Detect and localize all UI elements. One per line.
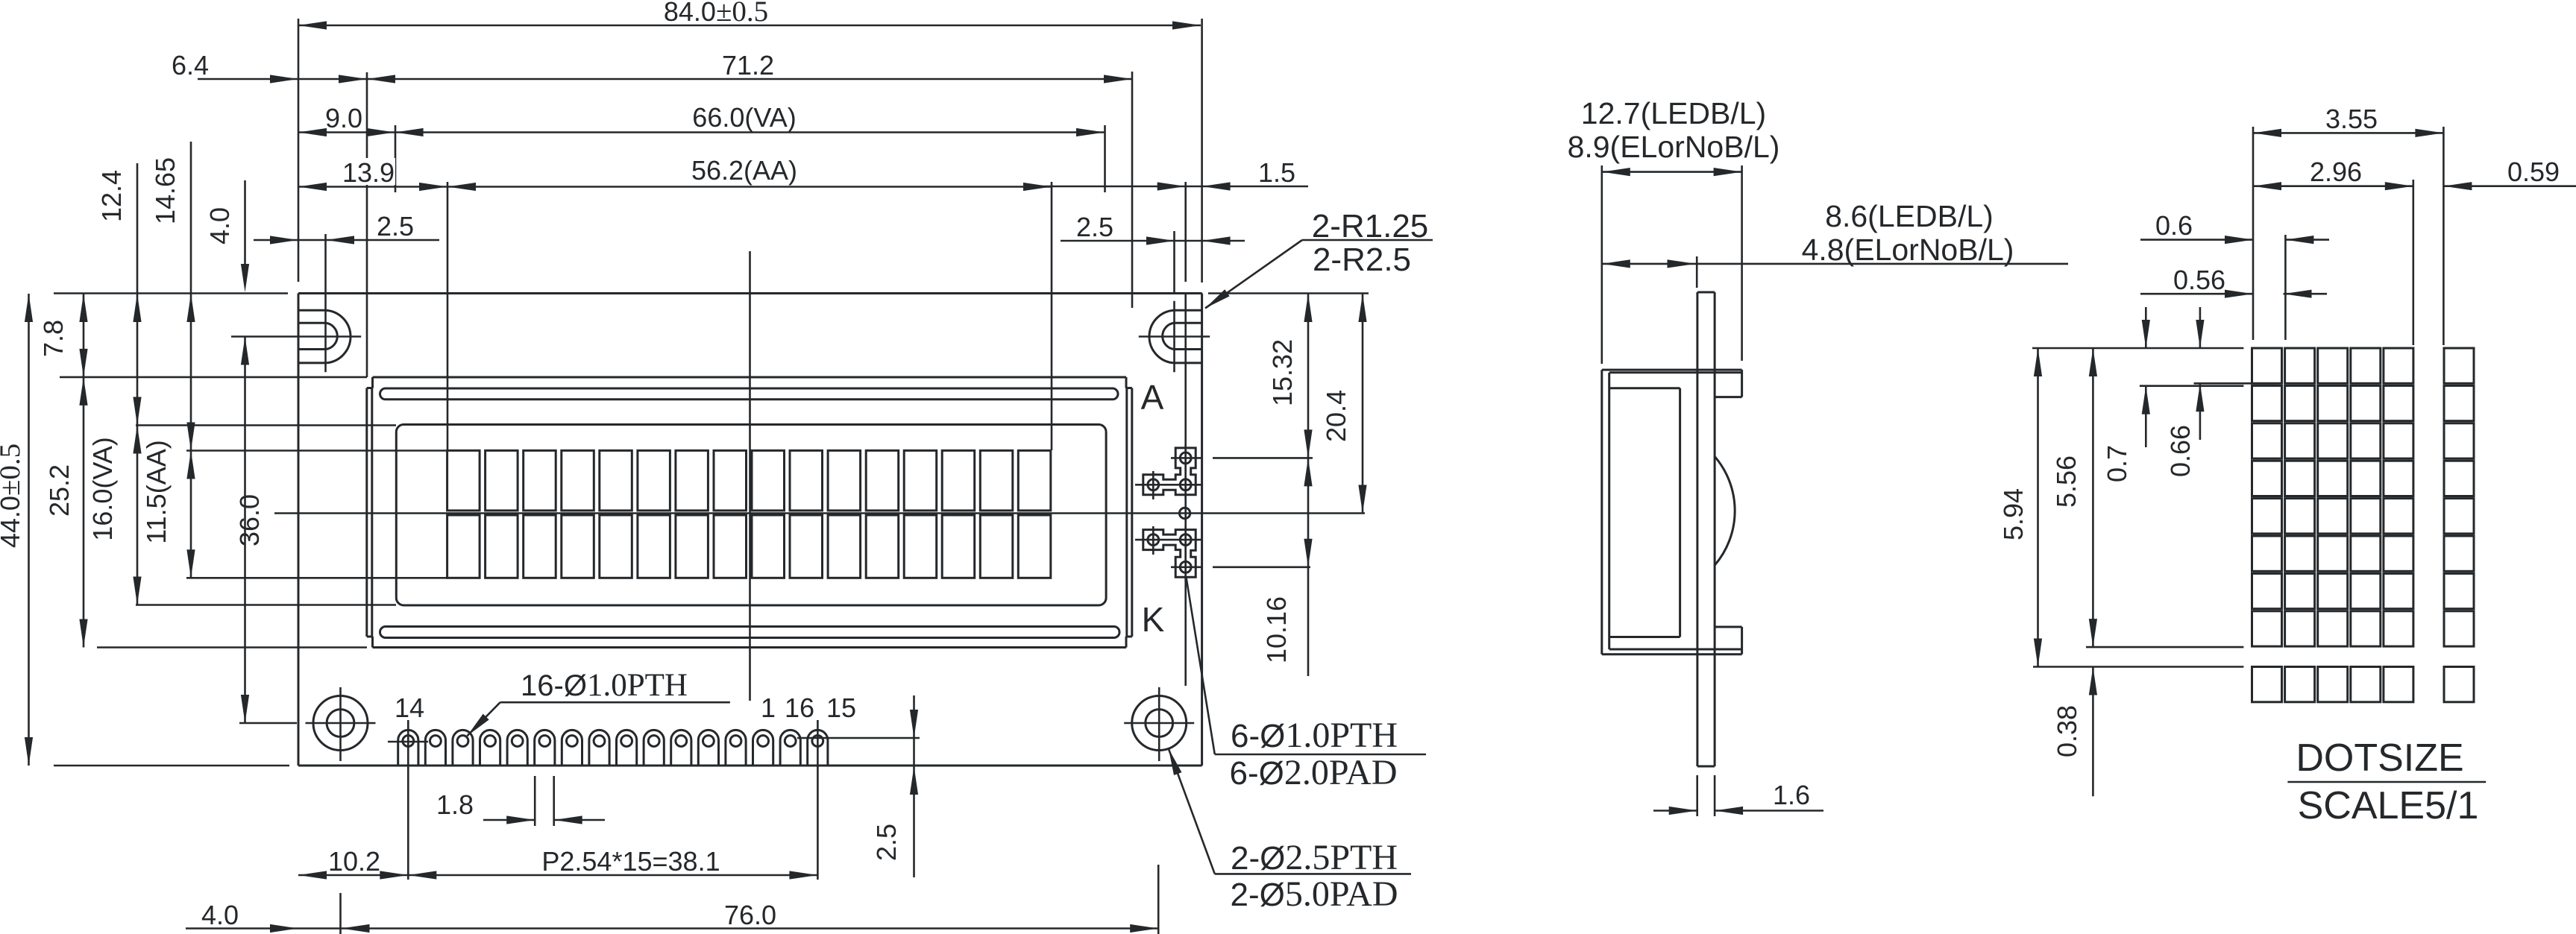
svg-text:1: 1 (761, 692, 776, 723)
extension line AA left 600 (447, 182, 449, 450)
character cell matrix 16x2 (447, 450, 480, 511)
svg-text:6-Ø2.0PAD: 6-Ø2.0PAD (1230, 753, 1398, 792)
svg-text:DOTSIZE: DOTSIZE (2296, 736, 2463, 780)
svg-text:K: K (1142, 600, 1165, 639)
svg-text:56.2(AA): 56.2(AA) (691, 155, 797, 186)
right mounting hole 2.5PTH/5.0PAD (1132, 696, 1187, 751)
svg-text:20.4: 20.4 (1321, 390, 1351, 442)
side view bezel top flange (1602, 369, 1742, 371)
svg-text:8.9(ELorNoB/L): 8.9(ELorNoB/L) (1568, 130, 1780, 164)
svg-text:71.2: 71.2 (722, 50, 774, 81)
svg-text:2-Ø5.0PAD: 2-Ø5.0PAD (1231, 874, 1398, 914)
leader 2-Ø2.5PTH/2-Ø5.0PAD (1169, 748, 1215, 874)
center reference hole (1179, 508, 1190, 518)
pad column centerline (1184, 182, 1187, 282)
extension top edge right (1208, 292, 1369, 294)
extension line AA right 1410 (1051, 182, 1053, 450)
svg-text:14: 14 (395, 692, 424, 723)
svg-text:2-R1.25: 2-R1.25 (1312, 208, 1429, 244)
svg-text:44.0±0.5: 44.0±0.5 (0, 444, 26, 548)
svg-text:9.0: 9.0 (325, 103, 362, 133)
svg-text:7.8: 7.8 (38, 320, 69, 357)
dim 0.38 cursor gap (2092, 667, 2094, 797)
extension bottom edge left (54, 765, 289, 767)
LED anode pad cluster A (1143, 448, 1196, 495)
svg-text:25.2: 25.2 (44, 464, 75, 517)
svg-text:2.5: 2.5 (1076, 212, 1113, 242)
side view PCB strip (1696, 292, 1698, 766)
dim 5.94 (2037, 348, 2039, 667)
svg-text:12.7(LEDB/L): 12.7(LEDB/L) (1581, 96, 1766, 130)
svg-text:4.0: 4.0 (201, 900, 239, 930)
svg-text:10.16: 10.16 (1261, 596, 1292, 663)
dot row9 top ref line (2033, 666, 2243, 668)
extension pad1 ref (1213, 457, 1313, 459)
extension line PCB left edge (298, 19, 300, 282)
bezel left folded edge (365, 388, 368, 637)
svg-text:5.56: 5.56 (2051, 455, 2082, 508)
svg-text:SCALE5/1: SCALE5/1 (2298, 784, 2479, 827)
bezel right folded edge (1131, 388, 1133, 637)
dim 2.5 right (1061, 240, 1245, 242)
svg-text:1.5: 1.5 (1258, 157, 1295, 188)
svg-text:4.8(ELorNoB/L): 4.8(ELorNoB/L) (1802, 233, 2014, 267)
dim 1.6 PCB thickness (1696, 775, 1698, 816)
svg-text:76.0: 76.0 (724, 900, 776, 930)
dim 2.96 / 0.59 (2413, 180, 2415, 345)
svg-text:11.5(AA): 11.5(AA) (141, 440, 172, 543)
left mounting hole 2.5PTH/5.0PAD (313, 696, 368, 751)
vertical centerline (749, 251, 751, 701)
leader 2-R1.25 / 2-R2.5 (1302, 239, 1433, 242)
svg-text:84.0±0.5: 84.0±0.5 (664, 0, 768, 28)
svg-text:0.7: 0.7 (2102, 445, 2132, 482)
dot matrix 5x8 grid (5:1 scale) (2252, 348, 2282, 383)
LED cathode pad cluster K (1143, 530, 1196, 578)
svg-text:1.8: 1.8 (436, 789, 474, 820)
extension line VA right 1481 (1104, 125, 1106, 192)
side view bezel bottom flange (1602, 653, 1742, 655)
dim 12.4 / 16.0(VA) vertical (136, 163, 139, 605)
dim 4.0 vertical (244, 180, 246, 265)
svg-text:15: 15 (826, 692, 856, 723)
svg-text:16-Ø1.0PTH: 16-Ø1.0PTH (521, 668, 688, 703)
dim 1.8 pad width (534, 776, 536, 826)
dim 5.56 (2092, 348, 2094, 647)
horizontal centerline (274, 512, 1365, 514)
svg-text:2-Ø2.5PTH: 2-Ø2.5PTH (1231, 838, 1398, 877)
dim 2.5 pin offset (913, 695, 915, 877)
svg-text:6-Ø1.0PTH: 6-Ø1.0PTH (1231, 716, 1398, 755)
dim 8.6/4.8 (1602, 263, 2068, 265)
dim 0.6 dot pitch (2140, 239, 2253, 241)
svg-text:P2.54*15=38.1: P2.54*15=38.1 (541, 846, 720, 877)
svg-text:0.38: 0.38 (2052, 705, 2082, 757)
extension AA bottom left (186, 577, 447, 579)
side view backlight bulge (1715, 456, 1735, 565)
svg-text:3.55: 3.55 (2325, 104, 2378, 134)
svg-text:13.9: 13.9 (342, 157, 395, 188)
extension VA bottom left (136, 604, 396, 606)
dim 2.5 left (254, 239, 439, 242)
dim 20.4 (1362, 294, 1364, 514)
dim 4.0 / 76.0 bottom (186, 927, 1158, 930)
svg-text:1.6: 1.6 (1773, 780, 1810, 810)
pin 15 center mark (797, 737, 920, 739)
svg-text:5.94: 5.94 (1998, 488, 2029, 540)
dim 7.8 / 25.2 vertical (83, 294, 85, 648)
svg-text:2-R2.5: 2-R2.5 (1313, 242, 1411, 278)
svg-text:12.4: 12.4 (96, 170, 127, 222)
dim 36.0 vertical (244, 337, 246, 724)
extension line bezel left 492 (366, 72, 368, 377)
dim 3.55 char pitch (2252, 127, 2255, 340)
svg-text:2.96: 2.96 (2310, 157, 2362, 187)
svg-text:16.0(VA): 16.0(VA) (87, 437, 118, 540)
side view bezel bottom tab (1741, 627, 1743, 654)
extension bezel bottom left (97, 646, 367, 649)
dim 13.9 / 56.2(AA) (298, 186, 1052, 188)
metal bezel bottom edge (373, 646, 1127, 649)
leader 16-Ø1.0PTH (500, 701, 730, 704)
bezel top spring slot (380, 388, 1119, 400)
PCB board outline (front view) (298, 292, 1202, 294)
bezel bottom spring slot (380, 627, 1120, 638)
side view bezel top tab (1741, 370, 1743, 397)
metal bezel top edge (373, 376, 1127, 379)
title divider line (2287, 781, 2486, 783)
mount hole ext line (339, 893, 342, 934)
dot 0.66 ref line (2194, 382, 2275, 385)
extension line bezel right 1518 (1131, 72, 1134, 308)
svg-text:6.4: 6.4 (172, 50, 209, 81)
svg-text:0.66: 0.66 (2165, 425, 2196, 477)
side view bezel front face (1600, 370, 1603, 654)
extension AA top left (186, 449, 447, 452)
dim 14.65 / 11.5(AA) vertical (190, 142, 192, 578)
display window (VA opening) (396, 425, 1106, 606)
pin pads 16-x teardrop (398, 730, 418, 766)
svg-text:0.6: 0.6 (2155, 210, 2193, 241)
svg-text:66.0(VA): 66.0(VA) (692, 102, 796, 133)
svg-text:2.5: 2.5 (377, 211, 414, 242)
svg-text:16: 16 (785, 692, 814, 723)
svg-text:4.0: 4.0 (204, 207, 235, 244)
extension top edge left (54, 292, 288, 294)
dim 9.0 / 66.0(VA) (298, 131, 1105, 133)
dot 0.7 ref line (2140, 385, 2244, 387)
svg-text:8.6(LEDB/L): 8.6(LEDB/L) (1825, 199, 1994, 233)
dim 44.0±0.5 vertical (28, 294, 30, 766)
dot row8 bottom ref line (2086, 646, 2243, 649)
extension bezel top left (60, 376, 367, 379)
right mounting ear slot (2-R1.25/2-R2.5) (1175, 309, 1202, 312)
side view LCD glass (1679, 388, 1681, 637)
dim 10.2 / P2.54*15=38.1 (298, 874, 817, 877)
leader 6-Ø1.0PTH/6-Ø2.0PAD (1187, 578, 1215, 754)
extension line PCB right edge (1201, 19, 1203, 283)
dim 84.0±0.5 (298, 25, 1201, 27)
extension line ear center 1574.5 (1173, 231, 1175, 294)
svg-text:36.0: 36.0 (234, 494, 265, 546)
dim 1.5 right (1027, 186, 1308, 188)
extension line VA left 530 (395, 125, 397, 192)
dim 15.32 / 10.16 (1307, 294, 1310, 676)
svg-text:A: A (1141, 378, 1164, 417)
extension pad6 ref (1213, 566, 1310, 568)
dot grid top ref line (2032, 347, 2243, 350)
dim 6.4 / 71.2 (198, 78, 1132, 81)
svg-text:15.32: 15.32 (1267, 339, 1298, 406)
dim 0.7 row pitch (2145, 307, 2147, 348)
extension VA top left (136, 424, 396, 426)
svg-text:2.5: 2.5 (871, 824, 902, 861)
left mounting ear slot (2-R1.25/2-R2.5) (298, 309, 326, 312)
dim 12.7/8.9 thickness (1601, 165, 1603, 364)
svg-text:0.56: 0.56 (2173, 265, 2225, 295)
right mount ext line (1157, 865, 1160, 934)
svg-text:0.59: 0.59 (2507, 157, 2560, 187)
pin 14 center mark (388, 741, 428, 743)
svg-text:14.65: 14.65 (150, 157, 180, 224)
svg-text:10.2: 10.2 (328, 846, 380, 877)
dim 0.66 dot height (2199, 307, 2202, 348)
dim 0.56 dot width (2140, 293, 2253, 295)
